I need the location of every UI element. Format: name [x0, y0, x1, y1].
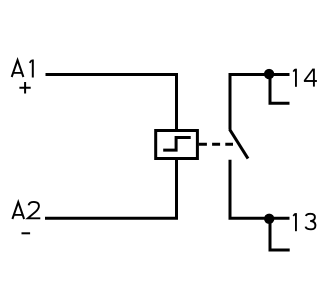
- dashed actuator link: [199, 143, 233, 146]
- hysteresis step symbol: [163, 138, 191, 151]
- wire node 14 to contact: [230, 75, 290, 130]
- polarity plus of A1: [19, 82, 30, 94]
- junction dot node 13: [264, 214, 274, 224]
- terminal label A1: [12, 60, 34, 78]
- stub terminal 13: [270, 218, 290, 250]
- label 13: [293, 213, 315, 231]
- contact blade: [230, 129, 248, 158]
- wire coil to A2: [45, 159, 177, 219]
- terminal label A2: [12, 202, 40, 219]
- label 14: [293, 69, 317, 87]
- wire A1 to coil: [46, 75, 177, 131]
- polarity minus of A2: [22, 232, 31, 234]
- relay coil K1 box: [156, 131, 198, 159]
- junction dot node 14: [264, 69, 274, 79]
- wire contact to node 13: [230, 160, 290, 219]
- stub terminal 14: [270, 75, 290, 104]
